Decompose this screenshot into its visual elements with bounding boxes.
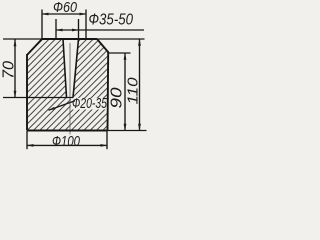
extension line top-right (110 dim reference) (97, 38, 145, 40)
svg-text:Ф35-50: Ф35-50 (89, 12, 134, 29)
arrow Ф100 left (27, 144, 34, 147)
svg-text:Ф60: Ф60 (53, 0, 78, 16)
arrow Ф35-50 right (72, 29, 79, 32)
centerline of hole axis (69, 43, 71, 135)
svg-text:110: 110 (125, 77, 142, 105)
arrow Ф60 right (80, 13, 87, 16)
extension line Ф35-50 right (78, 19, 80, 39)
part outline: top face (42, 38, 97, 40)
arrow 110 top (138, 39, 141, 46)
part outline: left wall (26, 54, 28, 131)
arrow 70 top (14, 39, 17, 46)
arrow 70 bottom (14, 91, 17, 98)
part outline: right chamfer (97, 39, 109, 53)
arrow Ф100 right (101, 144, 108, 147)
arrow Ф35-50 left (56, 29, 63, 32)
arrow leader Ф20-35 (49, 107, 55, 110)
hole cone left wall (63, 39, 67, 98)
extension line Ф35-50 left (55, 19, 57, 39)
arrow 90 top (124, 53, 127, 60)
hatched section body (outer outline with conical hole) (27, 39, 109, 131)
svg-text:70: 70 (1, 61, 18, 79)
part outline: right wall (107, 52, 110, 131)
extension line at hole bottom level y=97.5 (3, 97, 73, 99)
arrow 110 bottom (138, 124, 141, 131)
dimension line 110 (139, 39, 141, 131)
svg-text:90: 90 (109, 87, 126, 108)
hole cone right wall (73, 39, 79, 98)
dimension line Ф100 (27, 144, 107, 146)
extension line Ф60 left (41, 10, 43, 39)
svg-text:Ф100: Ф100 (52, 133, 80, 150)
extension line top-left (70 dim reference, collinear with top face) (3, 38, 42, 40)
svg-text:Ф20-35: Ф20-35 (72, 96, 108, 112)
leader line Ф20-35 (49, 101, 76, 110)
extension line bottom-right (90/110 dim reference) (108, 130, 147, 132)
dimension line Ф60 (42, 13, 86, 15)
dimension line Ф35-50 with leader to label (56, 29, 144, 31)
extension line Ф60 right (85, 10, 87, 39)
arrow Ф60 left (42, 13, 49, 16)
text clearing box for Ф20-35 (71, 98, 107, 110)
arrow 90 bottom (124, 124, 127, 131)
extension line Ф100 left (26, 131, 28, 149)
extension line at chamfer end (90 dim reference) (109, 52, 131, 54)
extension line Ф100 right (106, 131, 108, 149)
dimension line 70 (14, 40, 16, 98)
dimension line 90 (124, 53, 126, 131)
part outline: left chamfer (27, 39, 42, 55)
part outline: bottom face (27, 130, 108, 132)
